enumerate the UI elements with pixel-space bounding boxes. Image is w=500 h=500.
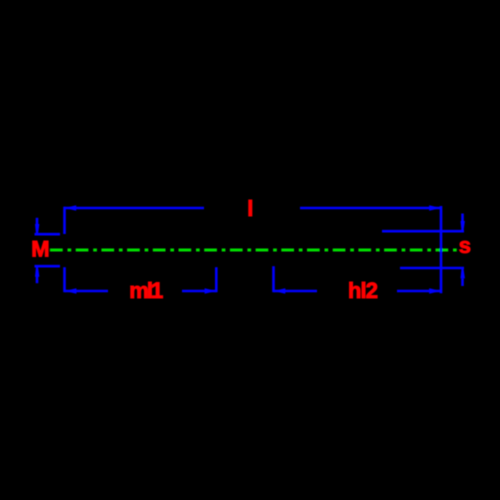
wire: ml1 left extension line bbox=[63, 267, 66, 292]
wire: hl2 dimension line, right segment bbox=[397, 290, 441, 293]
wire: dimension line l, right segment bbox=[300, 207, 441, 210]
arrowhead: l left bbox=[65, 205, 76, 210]
arrowhead: M top (points down) bbox=[35, 224, 39, 234]
arrowhead: hl2 right bbox=[429, 288, 440, 293]
wire: hl2 left extension line bbox=[272, 266, 275, 292]
wire: ml1 dimension line, left segment bbox=[65, 290, 109, 293]
wire: s bottom extension line bbox=[400, 267, 464, 270]
wire: right extension line (shared l / hl2 / s) bbox=[440, 206, 443, 293]
wire: ml1 right extension line bbox=[215, 267, 218, 292]
wire: M bottom arrow leader bbox=[36, 277, 39, 284]
arrowhead: s bottom (points up) bbox=[461, 269, 465, 279]
arrowhead: ml1 right bbox=[205, 288, 216, 293]
wire: s top arrow leader bbox=[461, 214, 464, 222]
svg-text:M: M bbox=[31, 237, 49, 262]
wire: M top arrow leader bbox=[36, 218, 39, 225]
svg-text:l: l bbox=[247, 196, 253, 221]
svg-text:s: s bbox=[459, 233, 471, 258]
wire: hl2 dimension line, left segment bbox=[274, 290, 318, 293]
wire: s bottom arrow leader bbox=[461, 279, 464, 287]
wire: s top extension line bbox=[382, 230, 464, 233]
arrowhead: hl2 left bbox=[274, 288, 285, 293]
svg-text:hl2: hl2 bbox=[348, 278, 378, 303]
wire: dimension line l, left segment bbox=[64, 207, 204, 210]
arrowhead: l right bbox=[429, 205, 440, 210]
arrowhead: s top (points down) bbox=[461, 221, 465, 231]
wire: M top extension line bbox=[35, 233, 61, 236]
wire: ml1 dimension line, right segment bbox=[182, 290, 216, 293]
arrowhead: M bottom (points up) bbox=[35, 267, 39, 277]
wire: M bottom extension line bbox=[35, 265, 61, 268]
wire: left extension line (top, for l) bbox=[63, 207, 66, 234]
svg-text:ml1: ml1 bbox=[129, 278, 163, 303]
arrowhead: ml1 left bbox=[65, 288, 76, 293]
centerline (green dash-dot) bbox=[50, 249, 457, 252]
